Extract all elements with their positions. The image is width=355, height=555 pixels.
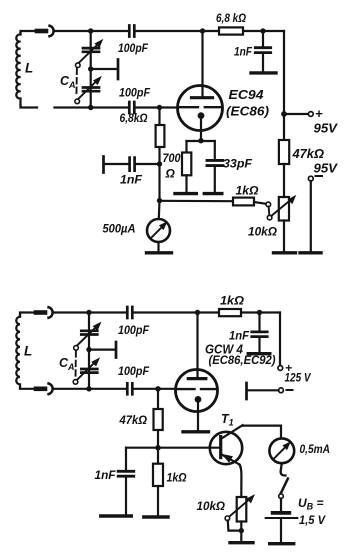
tuning bus 2 bbox=[88, 313, 90, 389]
antenna tap wire 2 bbox=[89, 349, 115, 351]
node wiper-bottom bbox=[239, 528, 244, 533]
svg-text:L: L bbox=[25, 61, 33, 76]
capacitor 1nF (base) lower lead bbox=[125, 477, 127, 516]
terminal -125V bbox=[279, 388, 284, 393]
svg-text:125 V: 125 V bbox=[285, 371, 312, 385]
potentiometer 10k2 wiper circle bbox=[225, 516, 230, 521]
variable capacitor CA3 plates bbox=[81, 331, 97, 335]
wire bottom (100pF to grid node) bbox=[135, 106, 160, 108]
plug J2 (top) bbox=[36, 310, 45, 315]
wire top2 (plug to 100pF) bbox=[54, 311, 128, 313]
inductor L2 bbox=[16, 315, 20, 388]
svg-text:47kΩ: 47kΩ bbox=[119, 413, 148, 427]
terminal bar (minus return) bbox=[245, 383, 248, 399]
node +95V tap bbox=[281, 111, 287, 117]
wire 700ohm to ground bbox=[185, 175, 187, 193]
wire base bus bbox=[126, 447, 221, 449]
tube U2 anode bar bbox=[188, 377, 206, 380]
tube U1 cathode dot bbox=[198, 112, 205, 119]
transistor Q1 base bar bbox=[219, 437, 222, 458]
wire to 33pF bbox=[214, 141, 216, 160]
variable capacitor CA4 arrow bbox=[76, 363, 94, 381]
wire output terminal to 1nF bbox=[104, 163, 129, 165]
variable capacitor CA2 plates bbox=[83, 88, 99, 92]
resistor 6.8k (anode) bbox=[219, 27, 243, 34]
tube U1 cathode lead bbox=[200, 116, 202, 141]
wire collector to meter bbox=[243, 426, 281, 439]
switch S lever bbox=[281, 479, 288, 494]
wire loop2 top-left corner bbox=[20, 313, 36, 317]
wire B+ rail corner bbox=[283, 31, 285, 140]
wire wiper to pot bottom bbox=[228, 521, 240, 531]
antenna tap bar bbox=[117, 60, 120, 80]
resistor 1k (anode2) bbox=[219, 309, 241, 316]
svg-text:95V: 95V bbox=[314, 121, 339, 136]
ground (1k bottom2) bbox=[144, 515, 168, 518]
tube U2 cathode lead bbox=[197, 399, 199, 431]
wire grid node down bbox=[158, 108, 160, 126]
svg-text:1nF: 1nF bbox=[95, 468, 117, 482]
ground (700ohm) bbox=[175, 192, 196, 195]
wire -125V to bar bbox=[248, 389, 279, 391]
ground (1nF decoupling) bbox=[251, 71, 276, 74]
capacitor 100pF (top2) bbox=[127, 307, 132, 318]
variable capacitor CA4 shaft circle bbox=[73, 380, 78, 385]
wire meter2 down with hook bbox=[281, 463, 286, 475]
tube U2 GCW4 envelope bbox=[176, 370, 218, 412]
wire loop top-left corner bbox=[21, 31, 38, 34]
antenna tap bar 2 bbox=[115, 342, 118, 358]
node bus-top bbox=[88, 28, 93, 33]
node base bus left corner bbox=[125, 448, 127, 471]
svg-text:6,8 kΩ: 6,8 kΩ bbox=[216, 11, 247, 25]
wire 1k2 top bbox=[157, 448, 159, 464]
potentiometer 10k2 arrow bbox=[229, 499, 249, 517]
meter M2 needle bbox=[274, 447, 286, 459]
wire top2 (100pF to corner) bbox=[133, 311, 280, 313]
svg-text:(EC86,EC92): (EC86,EC92) bbox=[209, 355, 276, 367]
node 1nF-gridleak bbox=[157, 161, 162, 166]
meter M1 500uA bbox=[147, 219, 170, 242]
tube U1 EC94 envelope bbox=[178, 86, 223, 131]
svg-text:0,5mA: 0,5mA bbox=[300, 442, 331, 456]
wiper contact circle lower bbox=[267, 215, 272, 220]
tube U1 grid lead bbox=[160, 106, 179, 108]
node bus2-top bbox=[86, 310, 91, 315]
minus sign at -125V bbox=[287, 389, 293, 391]
node 1k2 junction bbox=[155, 445, 160, 450]
node meter junction bbox=[157, 198, 162, 203]
wire cathode tee bbox=[187, 140, 215, 142]
svg-text:+: + bbox=[315, 106, 323, 121]
capacitor 1nF (decoupling2) lower lead bbox=[258, 337, 260, 353]
transistor Q1 T1 envelope bbox=[210, 432, 242, 464]
svg-text:1,5 V: 1,5 V bbox=[299, 513, 326, 527]
wire 47k to pot bbox=[283, 164, 285, 197]
svg-text:1nF: 1nF bbox=[120, 173, 143, 187]
capacitor 1nF (decoupling) lead bbox=[262, 31, 264, 47]
svg-text:47kΩ: 47kΩ bbox=[291, 147, 324, 161]
wiper contact circle upper bbox=[266, 202, 271, 207]
node plate-top bbox=[200, 28, 205, 33]
capacitor 1nF (decoupling2) lead bbox=[258, 313, 260, 332]
ground (battery) bbox=[270, 542, 294, 545]
svg-text:1kΩ: 1kΩ bbox=[236, 184, 260, 198]
capacitor 1nF (base) plates bbox=[118, 471, 134, 476]
resistor 6.8k (grid leak) bbox=[156, 125, 165, 147]
tube U2 grid dashes bbox=[178, 388, 216, 390]
resistor 47k bbox=[279, 140, 289, 164]
wire bottom2 (100pF to tube grid) bbox=[133, 388, 176, 390]
capacitor 100pF (bottom2) bbox=[127, 383, 132, 394]
wire meter top bbox=[158, 201, 161, 219]
wire to 700ohm bbox=[185, 141, 187, 153]
battery UB positive plate (long thin) bbox=[266, 517, 298, 519]
node bus-bottom bbox=[88, 105, 93, 110]
wire grid2 down bbox=[157, 389, 159, 409]
wire grid leak down bbox=[158, 147, 160, 201]
svg-text:100pF: 100pF bbox=[118, 364, 150, 378]
transistor Q1 emitter arrow (PNP) bbox=[223, 455, 233, 462]
wire B+ rail 2 bbox=[279, 313, 281, 366]
potentiometer 10k2 body bbox=[237, 497, 247, 522]
wire 1k to wiper bbox=[254, 202, 266, 204]
node bus2-tap bbox=[86, 347, 91, 352]
svg-text:EC94: EC94 bbox=[229, 87, 265, 102]
wire pot to ground bbox=[283, 221, 285, 253]
svg-text:10kΩ: 10kΩ bbox=[197, 499, 226, 513]
svg-text:700: 700 bbox=[163, 151, 181, 165]
terminal -95V bbox=[308, 176, 313, 181]
wiper link bbox=[268, 207, 271, 216]
transistor Q1 collector bbox=[221, 425, 243, 439]
transistor Q1 emitter bbox=[221, 454, 240, 465]
capacitor 100pF (top) bbox=[129, 26, 134, 37]
tuning bus bbox=[90, 31, 92, 108]
variable capacitor CA1 plates bbox=[83, 48, 99, 52]
tube U1 anode lead bbox=[201, 31, 203, 98]
wire 1k2 to ground bbox=[157, 486, 159, 517]
minus bar under -95V label bbox=[315, 175, 324, 177]
wire -95V down bbox=[310, 181, 312, 252]
resistor 1k (top circuit) bbox=[233, 198, 254, 206]
ground (cathode2) bbox=[183, 430, 209, 433]
wire bottom2 (plug to 100pF) bbox=[54, 388, 128, 390]
wire switch to battery bbox=[280, 499, 282, 512]
capacitor 1nF (decoupling2) plates bbox=[252, 332, 267, 337]
wire meter to ground bbox=[157, 242, 159, 252]
variable capacitor CA3 arrow bbox=[76, 327, 95, 346]
ground (33pF) bbox=[204, 192, 222, 195]
variable capacitor CA2 shaft circle bbox=[75, 99, 80, 104]
wire emitter to pot bbox=[240, 465, 242, 497]
meter M2 0.5mA bbox=[269, 438, 294, 463]
capacitor 1nF (decoupling) lower lead bbox=[262, 53, 264, 72]
ground (meter) bbox=[147, 251, 172, 254]
capacitor 1nF (output) terminal bar bbox=[102, 157, 105, 173]
svg-text:L: L bbox=[24, 344, 32, 359]
antenna tap wire bbox=[91, 68, 117, 70]
ground (1nF decoupling2) bbox=[248, 352, 269, 355]
svg-text:500µA: 500µA bbox=[103, 222, 136, 236]
variable capacitor CA3 shaft circle bbox=[74, 346, 79, 351]
node cathode junction bbox=[198, 138, 203, 143]
resistor 1k (bottom2) bbox=[153, 464, 163, 486]
node grid junction bbox=[157, 105, 162, 110]
svg-text:100pF: 100pF bbox=[118, 41, 149, 55]
node 1nF-top bbox=[260, 28, 265, 33]
plug J3 socket arc bbox=[49, 384, 53, 395]
wire top (plug to bus) bbox=[55, 30, 130, 32]
svg-text:1kΩ: 1kΩ bbox=[220, 294, 245, 308]
inductor L bbox=[16, 33, 20, 106]
wire battery to ground bbox=[280, 519, 282, 544]
svg-text:10kΩ: 10kΩ bbox=[248, 225, 278, 239]
plug J1 socket arc bbox=[50, 26, 54, 37]
node bus-tap bbox=[88, 66, 93, 71]
potentiometer 10k arrow bbox=[271, 200, 290, 216]
tube U2 anode lead bbox=[196, 313, 198, 379]
wire 47k2 down bbox=[157, 430, 159, 448]
variable capacitor CA4 plates bbox=[81, 369, 97, 373]
wire +95V tap bbox=[284, 113, 308, 115]
terminal +95V bbox=[308, 112, 313, 117]
plug J3 (bottom) bbox=[36, 386, 45, 391]
svg-text:33pF: 33pF bbox=[223, 157, 253, 171]
node bus2-bottom bbox=[86, 386, 91, 391]
battery UB negative plate (short thick) bbox=[273, 511, 290, 515]
ground (pot) bbox=[274, 251, 296, 254]
variable capacitor CA1 arrow bbox=[78, 45, 97, 64]
resistor 47k (grid2) bbox=[154, 409, 163, 430]
tube U2 cathode dot bbox=[195, 396, 202, 403]
variable capacitor CA2 arrow bbox=[78, 82, 96, 100]
wire loop2 bottom-left corner bbox=[20, 387, 36, 389]
svg-text:(EC86): (EC86) bbox=[226, 104, 269, 119]
wire loop bottom-left corner bbox=[21, 105, 38, 108]
meter M1 needle bbox=[151, 227, 162, 238]
svg-text:6,8kΩ: 6,8kΩ bbox=[120, 111, 149, 125]
capacitor 1nF (output) plates bbox=[130, 158, 135, 171]
wire to 1k resistor bbox=[160, 200, 234, 203]
variable capacitor CA1 shaft circle bbox=[76, 63, 81, 68]
ground (-95V) bbox=[300, 251, 321, 254]
tube U1 grid dashes bbox=[180, 106, 222, 108]
capacitor 33pF lower lead bbox=[214, 166, 216, 193]
ground (1nF base) bbox=[101, 514, 132, 517]
capacitor 1nF (decoupling) plates bbox=[255, 48, 270, 53]
svg-text:95V: 95V bbox=[314, 161, 339, 176]
ground (pot2) bbox=[230, 541, 253, 544]
plug J1 (top) bbox=[37, 29, 46, 34]
svg-text:1nF: 1nF bbox=[229, 329, 250, 343]
capacitor 33pF plates bbox=[207, 160, 223, 165]
node plate2-top bbox=[195, 310, 200, 315]
svg-text:100pF: 100pF bbox=[119, 86, 151, 100]
gang link 2 dashed bbox=[75, 351, 77, 378]
terminal +125V bbox=[278, 366, 283, 371]
node 1nF2-top bbox=[257, 310, 262, 315]
resistor 700ohm bbox=[182, 153, 191, 176]
wire top (cap to plate node) bbox=[135, 30, 284, 32]
wire bottom (plug to 100pF) bbox=[55, 106, 130, 108]
svg-text:1kΩ: 1kΩ bbox=[167, 471, 188, 485]
wire pot2 to ground bbox=[240, 522, 242, 543]
svg-text:100pF: 100pF bbox=[118, 323, 150, 337]
plug J2 socket arc bbox=[49, 307, 53, 318]
svg-text:1nF: 1nF bbox=[234, 45, 253, 59]
capacitor 100pF (bottom) bbox=[129, 102, 134, 113]
potentiometer 10k body bbox=[279, 197, 289, 221]
svg-text:Ω: Ω bbox=[165, 167, 176, 181]
gang link dashed bbox=[75, 69, 78, 97]
node grid2 junction bbox=[155, 386, 160, 391]
switch S contact circle bbox=[279, 494, 284, 499]
tube U1 anode bar bbox=[192, 96, 213, 99]
wire 1nF to grid-leak line bbox=[135, 163, 160, 165]
